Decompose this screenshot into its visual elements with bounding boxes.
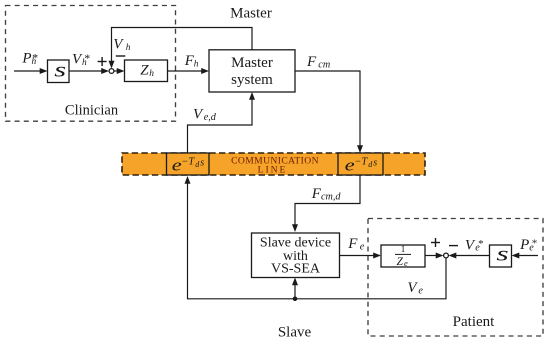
svg-text:−T: −T <box>354 157 368 168</box>
label minus J1 <box>116 55 126 57</box>
svg-text:Slave: Slave <box>278 325 312 341</box>
label V_h <box>113 36 131 53</box>
svg-text:s: s <box>200 158 204 169</box>
wire 1/Ze to sum junction J2 <box>425 253 444 259</box>
svg-text:VS-SEA: VS-SEA <box>271 262 321 277</box>
block 1/Ze <box>381 244 425 268</box>
wire Zh to Master system <box>168 68 210 74</box>
wire F_e (Slave right to 1/Ze) <box>340 253 382 259</box>
wire s to sum junction J1 <box>69 68 109 74</box>
label P_e* <box>519 237 537 253</box>
svg-text:Clinician: Clinician <box>65 103 119 119</box>
block Zh <box>125 60 168 82</box>
label V_e* <box>465 237 484 253</box>
wire V_ed (left comm block top to Master bottom) <box>188 92 256 153</box>
wire P_h* input <box>14 68 48 74</box>
label P_h* <box>21 50 38 67</box>
block s (patient) <box>490 242 512 267</box>
svg-text:P: P <box>21 51 31 67</box>
svg-text:Z: Z <box>397 256 404 268</box>
label F_e <box>347 236 364 253</box>
svg-text:cm: cm <box>318 60 330 71</box>
wire F_cmd (right comm block bottom to Slave top) <box>292 175 360 232</box>
block s (clinician) <box>48 58 70 82</box>
svg-text:h: h <box>126 43 131 53</box>
block Master system <box>209 50 295 92</box>
wire F_cm (Master right to comm line) <box>295 71 363 153</box>
wire s2 to J2 <box>449 253 490 259</box>
svg-text:e: e <box>418 286 423 297</box>
wire V_e feedback (J2 down, left, up into left comm block) <box>185 176 447 299</box>
label V_h* <box>72 51 90 68</box>
label F_h <box>184 53 199 70</box>
label plus J2 <box>431 238 440 247</box>
svg-text:F: F <box>347 236 358 252</box>
block e^-Tds left <box>167 153 210 175</box>
svg-text:h: h <box>149 69 154 79</box>
svg-text:*: * <box>32 50 38 64</box>
svg-text:e,d: e,d <box>204 112 217 123</box>
svg-text:*: * <box>478 238 484 250</box>
node dot on V_e feedback under slave box <box>293 297 298 302</box>
svg-text:P: P <box>519 237 529 253</box>
dashed region Patient <box>368 219 543 337</box>
wire P_e* input <box>512 253 539 259</box>
svg-text:s: s <box>54 58 66 81</box>
wire Vh feedback (Master top to J1) <box>109 28 253 69</box>
label V_e <box>407 280 423 296</box>
svg-text:e: e <box>360 241 365 252</box>
svg-text:*: * <box>532 238 538 250</box>
block e^-Tds right <box>338 153 383 175</box>
label F_cm <box>306 54 330 71</box>
sum junction J2 <box>444 253 449 258</box>
svg-text:Master: Master <box>231 55 273 71</box>
svg-text:h: h <box>194 59 199 69</box>
sum junction J1 <box>109 69 114 74</box>
svg-text:Patient: Patient <box>453 314 495 330</box>
svg-text:s: s <box>373 158 377 169</box>
wire J1 to Zh <box>114 68 125 74</box>
label minus J2 <box>449 245 458 247</box>
block Slave device with VS-SEA <box>252 233 340 278</box>
svg-text:Master: Master <box>230 6 272 22</box>
svg-text:e: e <box>404 258 408 268</box>
svg-text:s: s <box>496 242 508 266</box>
wire branch up into Slave bottom <box>292 278 298 299</box>
label plus J1 <box>98 57 107 66</box>
svg-text:1: 1 <box>401 244 406 254</box>
svg-text:LINE: LINE <box>258 164 288 175</box>
dashed region Clinician <box>6 6 176 122</box>
svg-text:*: * <box>84 51 90 65</box>
label V_ed <box>193 106 217 123</box>
communication line band <box>122 153 425 175</box>
svg-text:Z: Z <box>140 62 149 78</box>
label F_cmd <box>311 186 342 203</box>
svg-text:cm,d: cm,d <box>321 192 341 203</box>
svg-text:F: F <box>306 54 317 70</box>
svg-text:system: system <box>231 72 273 88</box>
svg-text:−T: −T <box>181 157 195 168</box>
